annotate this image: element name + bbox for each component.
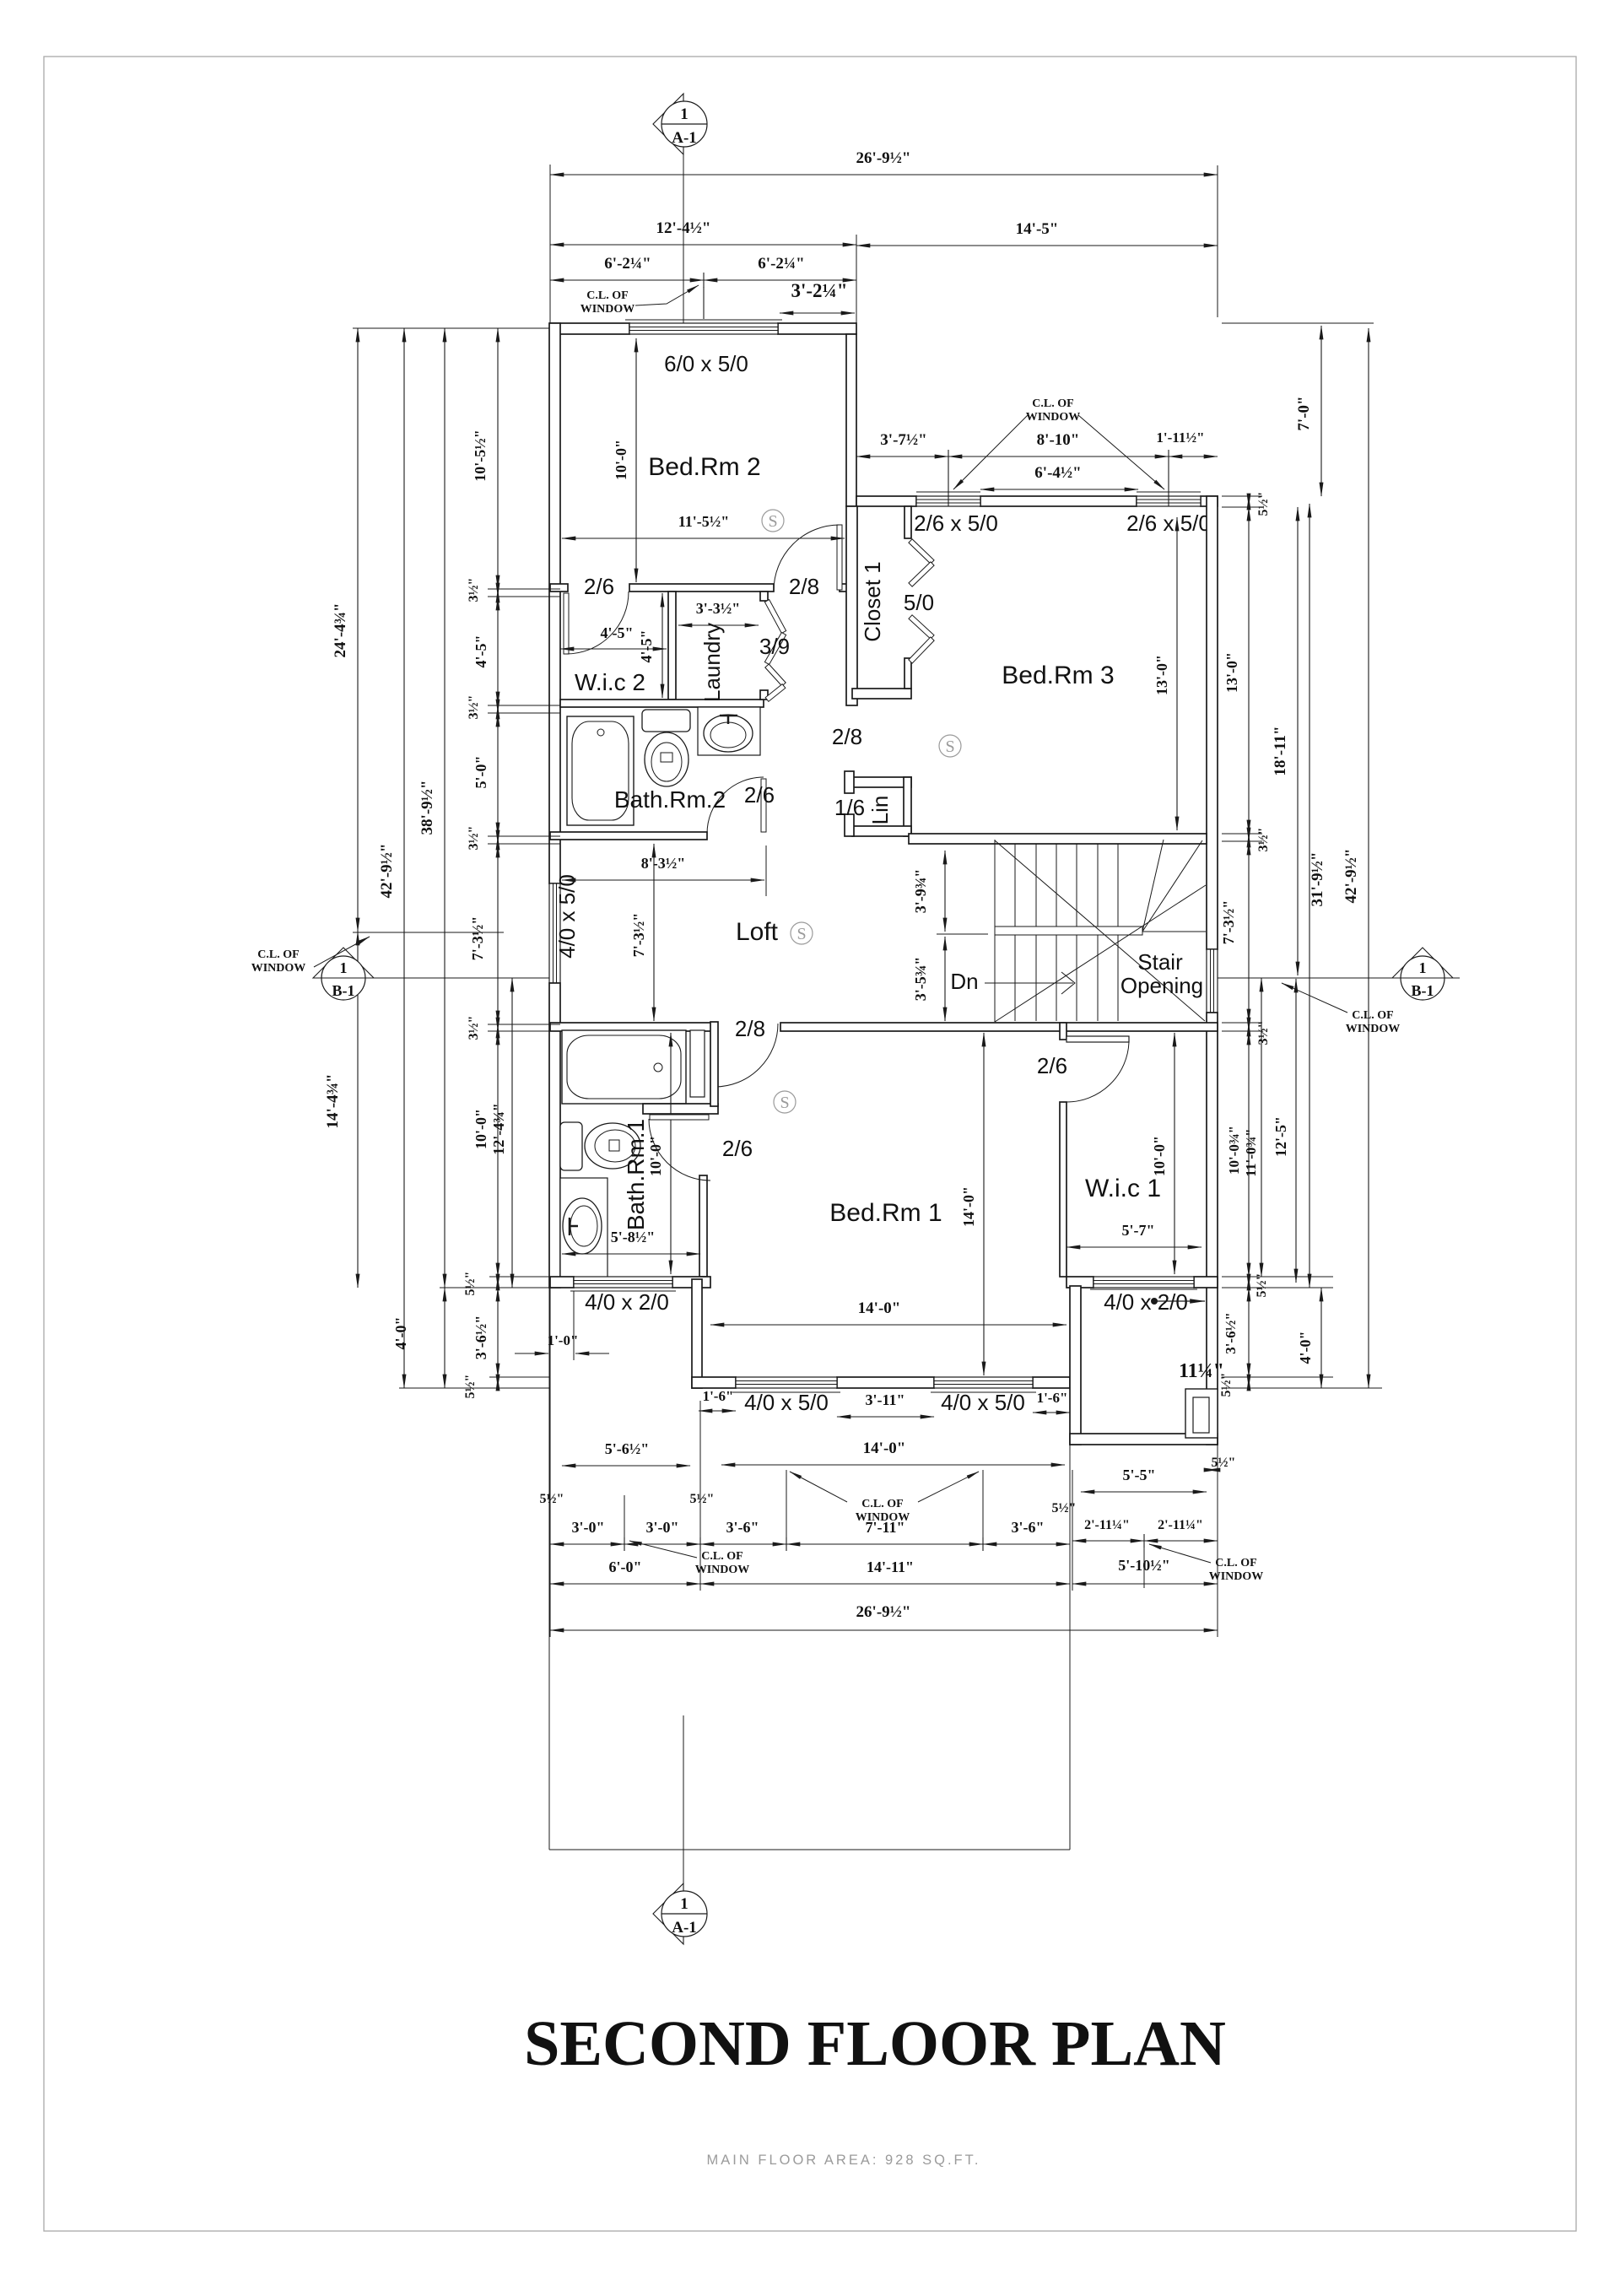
wall right of Bath.Rm1 lower <box>699 1175 707 1277</box>
svg-text:10'-0": 10'-0" <box>472 1109 489 1149</box>
dim 3'-9 3/4 stair <box>944 851 946 932</box>
svg-text:B-1: B-1 <box>332 982 355 999</box>
svg-text:6'-2¼": 6'-2¼" <box>758 255 804 273</box>
wall left of W.i.c 1 <box>1060 1102 1066 1277</box>
svg-text:6/0 x 5/0: 6/0 x 5/0 <box>664 351 748 376</box>
svg-text:10'-0": 10'-0" <box>1151 1136 1168 1176</box>
svg-text:4'-0": 4'-0" <box>392 1317 409 1350</box>
wall top of Bath.Rm 2 <box>560 700 764 707</box>
svg-text:1/6: 1/6 <box>834 795 865 820</box>
toilet Bath.Rm 1 <box>560 1122 582 1170</box>
door 2/8 Bath.Rm1 entry (leaf and arc) <box>712 1025 717 1087</box>
svg-text:Bath.Rm.2: Bath.Rm.2 <box>614 786 726 813</box>
svg-text:Closet 1: Closet 1 <box>860 561 885 641</box>
symbol S Loft <box>791 922 813 944</box>
shelf right of tub <box>690 1030 705 1097</box>
stair treads <box>1014 844 1016 1021</box>
wall left exterior upper <box>549 323 560 883</box>
svg-text:A-1: A-1 <box>672 1919 697 1937</box>
svg-text:14'-11": 14'-11" <box>867 1559 914 1575</box>
wall right of tub upper <box>710 1022 718 1106</box>
dim 3'-3 1/2 in laundry <box>678 624 759 626</box>
tick at stair mid <box>937 933 988 935</box>
svg-text:S: S <box>796 925 806 943</box>
svg-text:3'-5¾": 3'-5¾" <box>912 957 929 1002</box>
svg-text:5/0: 5/0 <box>904 590 934 615</box>
window 4/0 x 5/0 left wall <box>549 883 560 983</box>
svg-text:1'-6": 1'-6" <box>1037 1390 1068 1406</box>
svg-text:5½": 5½" <box>1212 1456 1236 1470</box>
wall left exterior lower <box>549 983 560 1288</box>
dim 5'-6 1/2 <box>562 1465 690 1467</box>
door 2/8 to Bed.Rm 2 (leaf and arc) <box>837 525 842 590</box>
svg-text:4'-0": 4'-0" <box>1297 1332 1314 1364</box>
svg-text:S: S <box>780 1094 789 1112</box>
bottom ext lines vertical <box>624 1495 625 1551</box>
svg-text:18'-11": 18'-11" <box>1272 726 1289 775</box>
window 2/6 x 5/0 right <box>1137 496 1201 506</box>
window 4/0 x 2/0 W.i.c1 <box>1093 1277 1194 1288</box>
svg-text:14'-0": 14'-0" <box>858 1299 901 1317</box>
svg-text:14'-0": 14'-0" <box>863 1440 906 1457</box>
dim 5 1/2 bumpout top <box>1207 1469 1218 1471</box>
svg-text:3'-6": 3'-6" <box>726 1519 759 1536</box>
svg-text:3½": 3½" <box>467 1016 481 1040</box>
svg-text:14'-4¾": 14'-4¾" <box>324 1074 342 1129</box>
arrow 11 1/4 <box>1154 1300 1205 1302</box>
svg-text:10'-5½": 10'-5½" <box>472 429 489 482</box>
wall bottom of Bath.Rm 2 <box>550 832 707 840</box>
svg-text:1: 1 <box>680 1895 688 1913</box>
svg-text:13'-0": 13'-0" <box>1153 655 1170 695</box>
svg-text:Lin: Lin <box>867 796 893 825</box>
svg-text:5½": 5½" <box>463 1272 478 1296</box>
dim 11'-5 1/2 Bed.Rm2 <box>562 538 845 539</box>
section line A-1 top <box>683 147 684 323</box>
dim 14'-0 window row <box>721 1464 1065 1466</box>
svg-text:A-1: A-1 <box>672 129 697 147</box>
wall left of Closet 1 / hall <box>846 506 857 705</box>
svg-text:WINDOW: WINDOW <box>1026 411 1081 424</box>
right dim col 7'-0 <box>1320 326 1322 496</box>
svg-text:C.L. OF: C.L. OF <box>1215 1557 1256 1569</box>
bathtub Bath.Rm 2 <box>567 716 634 825</box>
left dim col 38'-9 1/2 <box>444 328 445 1288</box>
symbol A-1 bottom <box>653 1883 683 1944</box>
svg-text:WINDOW: WINDOW <box>1209 1570 1264 1583</box>
dim 4'-5 vertical W.i.c2 <box>661 593 663 698</box>
svg-text:3'-7½": 3'-7½" <box>880 431 926 449</box>
laundry door jambs <box>760 592 768 601</box>
wall right exterior upper <box>1207 496 1218 949</box>
svg-text:7'-3½": 7'-3½" <box>469 916 486 961</box>
svg-text:10'-0¾": 10'-0¾" <box>1226 1126 1242 1175</box>
dim 14'-0 Bed.Rm1 vertical <box>983 1033 985 1375</box>
dim 10'-0 Bath.Rm1 vertical <box>670 1033 672 1274</box>
section line B-1 left <box>313 977 549 979</box>
right dim col 42'-9 1/2 <box>1368 328 1369 1388</box>
right dim col 18'-11 and 31'-9 1/2 <box>1297 507 1299 975</box>
svg-text:11¼": 11¼" <box>1179 1360 1224 1382</box>
svg-text:2/6: 2/6 <box>1037 1053 1067 1078</box>
left dim col 24'-4 3/4 and 14'-4 3/4 <box>357 328 359 932</box>
svg-text:5'-7": 5'-7" <box>1122 1222 1155 1239</box>
door 2/6 to W.i.c 2 (leaf and arc) <box>564 593 569 654</box>
svg-text:Bath.Rm.1: Bath.Rm.1 <box>623 1119 649 1230</box>
dim 5'-7 W.i.c1 <box>1066 1246 1201 1248</box>
wall left of Bed.Rm 1 lower <box>692 1279 702 1388</box>
dim chain bottom 3-0 3-0 3-6 7-11 3-6 <box>550 1543 624 1545</box>
svg-text:C.L. OF: C.L. OF <box>586 289 628 302</box>
chimney box <box>1185 1389 1218 1438</box>
dim 8'-3 1/2 Loft <box>562 879 764 881</box>
dim 5'-5 bumpout <box>1081 1491 1207 1493</box>
svg-text:7'-3½": 7'-3½" <box>1220 900 1237 945</box>
dim 3'-11 <box>837 1416 934 1418</box>
svg-text:3'-0": 3'-0" <box>646 1519 679 1536</box>
svg-text:1'-6": 1'-6" <box>703 1388 734 1404</box>
dim 10'-0 W.i.c1 vertical <box>1174 1033 1175 1274</box>
left dim col 4'-0 <box>444 1288 445 1388</box>
svg-text:14'-0": 14'-0" <box>960 1186 977 1227</box>
svg-text:2/6 x 5/0: 2/6 x 5/0 <box>914 511 998 536</box>
right dim col detail <box>1248 496 1250 507</box>
svg-text:10'-0": 10'-0" <box>613 440 629 480</box>
svg-text:WINDOW: WINDOW <box>695 1564 750 1576</box>
wall bottom of Bed.Rm 1 <box>692 1377 736 1388</box>
svg-text:Bed.Rm 2: Bed.Rm 2 <box>648 453 760 481</box>
svg-text:4'-5": 4'-5" <box>601 624 634 641</box>
svg-text:2'-11¼": 2'-11¼" <box>1084 1518 1130 1532</box>
svg-text:4/0 x 5/0: 4/0 x 5/0 <box>744 1390 829 1415</box>
svg-text:42'-9½": 42'-9½" <box>378 844 396 899</box>
svg-text:7'-0": 7'-0" <box>1295 396 1313 430</box>
svg-text:11'-0¾": 11'-0¾" <box>1243 1128 1259 1176</box>
svg-text:3½": 3½" <box>467 695 481 720</box>
svg-text:2/6: 2/6 <box>744 782 775 808</box>
wall bottom of Loft <box>550 1023 711 1031</box>
stair diagonal B and fan <box>995 885 1206 1022</box>
svg-text:3'-11": 3'-11" <box>866 1391 905 1408</box>
symbol B-1 left <box>313 948 374 978</box>
svg-text:5½": 5½" <box>1219 1373 1234 1397</box>
door 2/6 Bath.Rm 2 (leaf and arc) <box>761 779 766 832</box>
door 2/6 W.i.c 1 (leaf and arc) <box>1066 1036 1129 1042</box>
svg-text:2/6: 2/6 <box>722 1136 753 1161</box>
symbol A-1 top <box>653 94 683 154</box>
svg-text:C.L. OF: C.L. OF <box>701 1550 742 1563</box>
svg-text:Laundry: Laundry <box>699 623 725 702</box>
wall divider W.i.c 2 / Laundry <box>668 592 676 700</box>
svg-text:SECOND FLOOR PLAN: SECOND FLOOR PLAN <box>524 2008 1226 2079</box>
wall bottom of W.i.c 1 <box>1066 1277 1093 1288</box>
svg-text:12'-5": 12'-5" <box>1272 1116 1289 1157</box>
svg-text:4'-5": 4'-5" <box>472 635 489 668</box>
svg-text:14'-5": 14'-5" <box>1016 220 1059 238</box>
svg-text:3½": 3½" <box>467 578 481 602</box>
Dn arrow <box>985 982 1073 984</box>
dim 4'-5 horizontal W.i.c2 <box>560 648 667 650</box>
svg-text:8'-10": 8'-10" <box>1037 431 1080 449</box>
svg-text:3½": 3½" <box>467 826 481 851</box>
svg-text:MAIN FLOOR AREA: 928 SQ.FT.: MAIN FLOOR AREA: 928 SQ.FT. <box>707 2153 981 2168</box>
svg-text:4/0 x 2/0: 4/0 x 2/0 <box>1104 1289 1188 1315</box>
stair diagonal A <box>995 840 1205 1021</box>
svg-text:13'-0": 13'-0" <box>1223 652 1240 693</box>
right ext lines <box>1222 495 1262 497</box>
wall top of Bed.Rm 2 (exterior) <box>550 323 629 334</box>
svg-text:31'-9½": 31'-9½" <box>1309 852 1326 907</box>
left dim col 12'-4 3/4 <box>511 978 513 1288</box>
svg-text:5½": 5½" <box>1256 492 1271 516</box>
sink Bath.Rm 1 <box>560 1178 607 1279</box>
svg-text:3'-6½": 3'-6½" <box>472 1315 489 1360</box>
svg-text:2'-11¼": 2'-11¼" <box>1158 1518 1203 1532</box>
window 2/6 x 5/0 left <box>916 496 980 506</box>
symbol S Bed.Rm 3 <box>939 735 961 757</box>
svg-text:5'-6½": 5'-6½" <box>605 1440 650 1457</box>
symbol S Bed.Rm 2 <box>762 510 784 532</box>
svg-text:12'-4¾": 12'-4¾" <box>490 1103 507 1155</box>
window 4/0 x 5/0 bottom left <box>736 1377 837 1388</box>
wall right of Bed.Rm 2 (interior) <box>846 334 856 506</box>
dims top right section <box>856 456 948 457</box>
stair left edge <box>994 840 996 1022</box>
svg-text:Bed.Rm 1: Bed.Rm 1 <box>829 1199 942 1227</box>
toilet Bath.Rm 2 <box>642 710 690 732</box>
wall below tub <box>643 1104 718 1114</box>
svg-text:WINDOW: WINDOW <box>580 303 635 316</box>
svg-text:8'-3½": 8'-3½" <box>641 855 686 872</box>
svg-text:2/6: 2/6 <box>584 574 614 599</box>
svg-text:1: 1 <box>680 105 688 123</box>
svg-text:5'-0": 5'-0" <box>472 756 489 789</box>
dim 3'-5 3/4 stair <box>944 937 946 1021</box>
svg-text:3'-9¾": 3'-9¾" <box>912 869 929 914</box>
dim 26'-9 1/2 bottom <box>550 1629 1218 1631</box>
svg-text:26'-9½": 26'-9½" <box>856 1603 911 1621</box>
svg-text:Loft: Loft <box>736 918 779 946</box>
wall bottom of Bed.Rm 3 (stair top) <box>909 834 1207 844</box>
svg-text:11'-5½": 11'-5½" <box>678 513 730 530</box>
window in right wall at stair <box>1207 949 1218 1013</box>
svg-text:3'-6": 3'-6" <box>1012 1519 1045 1536</box>
dim 14'-11 <box>700 1583 1070 1585</box>
svg-text:C.L. OF: C.L. OF <box>1032 397 1073 410</box>
svg-text:24'-4¾": 24'-4¾" <box>332 603 349 658</box>
svg-text:3/9: 3/9 <box>759 634 790 659</box>
wall bottom of Bed.Rm 2 <box>550 584 568 592</box>
section line A-1 bottom <box>683 1715 684 1892</box>
svg-text:5½": 5½" <box>540 1492 564 1506</box>
svg-text:6'-2¼": 6'-2¼" <box>604 255 651 273</box>
sink Bath.Rm 2 <box>698 707 760 755</box>
dim 14'-5 <box>856 245 1218 246</box>
svg-text:26'-9½": 26'-9½" <box>856 149 911 167</box>
bifold door 3/9 (zigzag) <box>764 600 786 634</box>
closet 1 door jambs <box>904 506 911 538</box>
left dim col detail <box>497 328 499 589</box>
svg-text:Dn: Dn <box>950 969 978 994</box>
svg-text:4/0 x 2/0: 4/0 x 2/0 <box>585 1289 669 1315</box>
dim 2'-11 1/4 pair <box>1072 1540 1144 1542</box>
svg-text:1: 1 <box>340 959 348 976</box>
svg-text:3'-3½": 3'-3½" <box>696 600 741 617</box>
svg-text:WINDOW: WINDOW <box>1346 1023 1401 1035</box>
lower floor outline <box>548 1288 550 1850</box>
svg-text:2/8: 2/8 <box>789 574 819 599</box>
svg-text:C.L. OF: C.L. OF <box>861 1498 903 1510</box>
right dim col 12'-5 <box>1295 979 1297 1283</box>
svg-text:5½": 5½" <box>690 1492 715 1506</box>
svg-text:6'-0": 6'-0" <box>609 1559 642 1575</box>
wall left of bumpout <box>1070 1286 1081 1445</box>
svg-text:2/6 x 5/0: 2/6 x 5/0 <box>1126 511 1211 536</box>
dim 6'-2 1/4 pair <box>550 279 704 281</box>
dim 12'-4 1/2 <box>550 244 856 246</box>
svg-text:3'-2¼": 3'-2¼" <box>791 280 847 301</box>
window 4/0 x 5/0 bottom right <box>934 1377 1033 1388</box>
ext lines top dims <box>549 165 551 323</box>
ticks window CL right section <box>948 450 949 506</box>
svg-text:S: S <box>768 512 777 531</box>
right dim col 4'-0 <box>1320 1288 1322 1388</box>
svg-text:S: S <box>945 737 954 756</box>
svg-text:W.i.c 2: W.i.c 2 <box>575 669 645 695</box>
dim 13'-0 Bed.Rm3 vertical <box>1176 517 1178 830</box>
svg-text:4/0 x 5/0: 4/0 x 5/0 <box>554 874 580 959</box>
dim 14'-0 below Bed.Rm1 <box>710 1324 1066 1326</box>
svg-text:12'-4½": 12'-4½" <box>656 219 711 237</box>
svg-text:W.i.c 1: W.i.c 1 <box>1085 1175 1161 1202</box>
svg-text:3'-6½": 3'-6½" <box>1223 1312 1239 1354</box>
symbol S Bed.Rm 1 <box>774 1091 796 1113</box>
wall bottom of Bath.Rm 1 <box>550 1277 574 1288</box>
dim 5'-10 1/2 <box>1072 1583 1218 1585</box>
svg-text:42'-9½": 42'-9½" <box>1342 849 1360 904</box>
dim 7'-3 1/2 Loft vertical <box>653 844 655 1021</box>
svg-text:5'-8½": 5'-8½" <box>611 1229 656 1245</box>
svg-text:38'-9½": 38'-9½" <box>418 781 436 835</box>
svg-text:5'-5": 5'-5" <box>1123 1467 1156 1483</box>
bathtub Bath.Rm 1 <box>562 1030 686 1104</box>
door 2/6 Bath.Rm 1 (leaf and arc) <box>650 1115 709 1120</box>
svg-text:C.L. OF: C.L. OF <box>1352 1009 1393 1022</box>
dim 5'-8 1/2 Bath.Rm1 <box>562 1253 700 1255</box>
svg-text:4'-5": 4'-5" <box>638 630 655 663</box>
wall bottom of bumpout <box>1070 1434 1218 1445</box>
left dim col 42'-9 1/2 <box>403 328 405 1388</box>
svg-text:C.L. OF: C.L. OF <box>257 948 299 961</box>
linen closet Lin <box>852 777 911 787</box>
symbol B-1 right <box>1392 948 1453 978</box>
svg-text:1'-11½": 1'-11½" <box>1156 429 1204 446</box>
svg-text:Bed.Rm 3: Bed.Rm 3 <box>1002 662 1114 689</box>
svg-text:2/8: 2/8 <box>832 724 862 749</box>
svg-text:4/0 x 5/0: 4/0 x 5/0 <box>941 1390 1025 1415</box>
svg-text:B-1: B-1 <box>1412 982 1434 999</box>
svg-text:Opening: Opening <box>1120 973 1203 998</box>
svg-text:2/8: 2/8 <box>735 1016 765 1041</box>
svg-text:Stair: Stair <box>1137 949 1183 975</box>
svg-text:5½": 5½" <box>463 1375 478 1399</box>
closet 1 bottom wall <box>852 689 911 699</box>
dim 3'-2 1/4 <box>780 312 855 314</box>
window 4/0 x 2/0 Bath.Rm1 <box>574 1277 672 1288</box>
dim 26'-9 1/2 top <box>550 174 1218 176</box>
bifold door 5/0 Closet 1 (zigzag) <box>909 539 934 564</box>
svg-text:6'-4½": 6'-4½" <box>1034 464 1081 482</box>
tick window CL top <box>703 287 705 319</box>
svg-text:WINDOW: WINDOW <box>251 962 306 975</box>
section line B-1 right <box>1218 977 1460 979</box>
wall top of Bed.Rm 3 section (exterior) <box>856 496 916 506</box>
left ext lines <box>488 588 560 590</box>
svg-text:1: 1 <box>1419 959 1427 976</box>
svg-text:3½": 3½" <box>1256 1021 1271 1045</box>
wall right exterior lower <box>1207 1013 1218 1445</box>
svg-text:3½": 3½" <box>1256 828 1271 852</box>
svg-text:7'-3½": 7'-3½" <box>630 913 647 958</box>
dim 10'-0 Bed.Rm2 vertical <box>635 338 637 582</box>
dim 6'-0 <box>550 1583 700 1585</box>
stair stringer <box>995 927 1142 935</box>
svg-text:3'-0": 3'-0" <box>572 1519 605 1536</box>
window 6/0 x 5/0 top wall <box>629 323 778 334</box>
svg-text:WINDOW: WINDOW <box>856 1511 910 1524</box>
